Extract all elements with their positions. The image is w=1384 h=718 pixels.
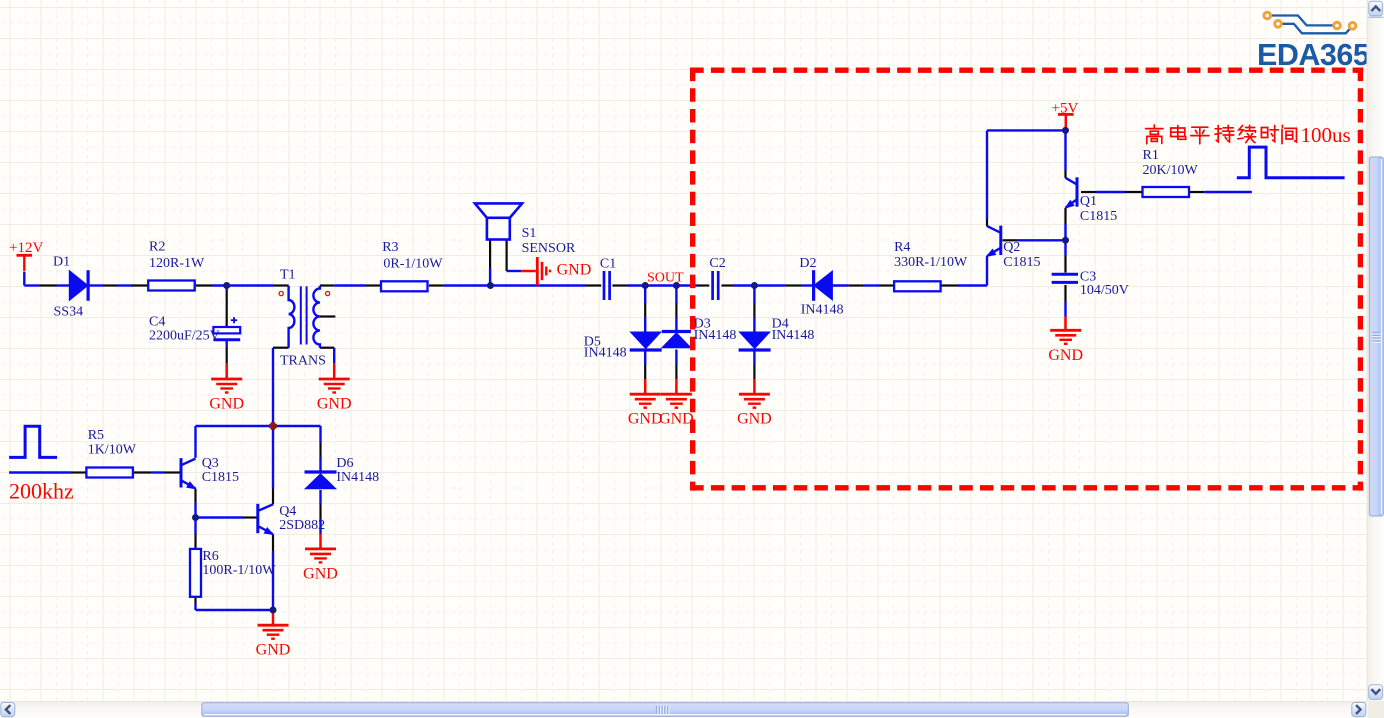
svg-text:R5: R5 [88, 428, 104, 443]
svg-text:C2: C2 [709, 256, 725, 271]
svg-text:GND: GND [1048, 347, 1083, 364]
svg-text:IN4148: IN4148 [584, 346, 627, 361]
svg-text:SENSOR: SENSOR [522, 241, 576, 256]
svg-text:D1: D1 [53, 254, 70, 269]
svg-text:D2: D2 [799, 256, 816, 271]
svg-text:SOUT: SOUT [647, 270, 684, 285]
svg-text:R3: R3 [382, 240, 398, 255]
svg-text:EDA365: EDA365 [1257, 38, 1370, 72]
svg-text:IN4148: IN4148 [694, 328, 737, 343]
svg-text:Q1: Q1 [1080, 194, 1097, 209]
svg-text:20K/10W: 20K/10W [1143, 163, 1199, 178]
svg-text:200khz: 200khz [9, 478, 74, 503]
svg-text:SS34: SS34 [54, 305, 84, 320]
svg-text:T1: T1 [280, 267, 296, 282]
svg-text:GND: GND [557, 262, 592, 279]
svg-text:104/50V: 104/50V [1080, 283, 1129, 298]
svg-text:1K/10W: 1K/10W [88, 443, 137, 458]
svg-text:100us: 100us [1301, 123, 1351, 147]
svg-text:GND: GND [628, 411, 663, 428]
svg-text:C4: C4 [149, 314, 165, 329]
svg-text:+12V: +12V [9, 240, 43, 256]
svg-text:+5V: +5V [1052, 101, 1079, 117]
svg-text:GND: GND [256, 642, 291, 659]
svg-text:C1815: C1815 [1003, 255, 1040, 270]
svg-text:C1815: C1815 [202, 470, 239, 485]
svg-text:2200uF/25V: 2200uF/25V [149, 328, 220, 343]
svg-text:IN4148: IN4148 [772, 328, 815, 343]
svg-text:R4: R4 [894, 240, 910, 255]
svg-text:IN4148: IN4148 [801, 303, 844, 318]
svg-text:R2: R2 [149, 240, 165, 255]
svg-text:2SD882: 2SD882 [279, 518, 325, 533]
svg-text:330R-1/10W: 330R-1/10W [894, 255, 968, 270]
svg-text:0R-1/10W: 0R-1/10W [383, 257, 443, 272]
svg-text:120R-1W: 120R-1W [149, 256, 205, 271]
svg-text:Q4: Q4 [279, 504, 296, 519]
svg-text:IN4148: IN4148 [336, 470, 379, 485]
svg-text:C1815: C1815 [1080, 209, 1117, 224]
svg-text:Q2: Q2 [1003, 240, 1020, 255]
svg-text:R1: R1 [1143, 148, 1159, 163]
svg-text:100R-1/10W: 100R-1/10W [202, 563, 276, 578]
svg-text:Q3: Q3 [202, 456, 219, 471]
svg-text:GND: GND [659, 411, 694, 428]
svg-text:GND: GND [737, 411, 772, 428]
svg-text:GND: GND [209, 396, 244, 413]
svg-text:GND: GND [317, 396, 352, 413]
svg-text:D6: D6 [336, 456, 353, 471]
svg-text:TRANS: TRANS [280, 354, 326, 369]
svg-text:C1: C1 [600, 256, 616, 271]
svg-text:S1: S1 [522, 226, 537, 241]
svg-text:GND: GND [303, 565, 338, 582]
